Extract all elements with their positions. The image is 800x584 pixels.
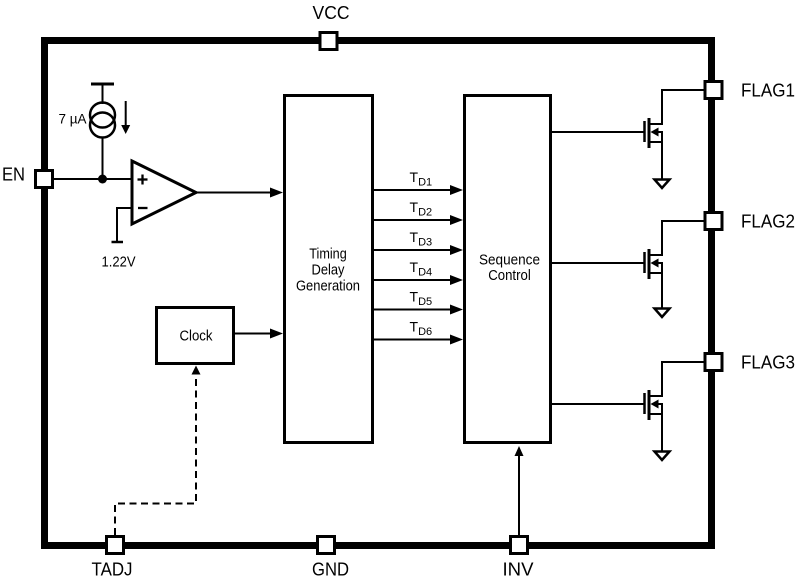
- timing delay generation block: [285, 96, 373, 443]
- wire TD6: [374, 335, 463, 345]
- ground Q1: [655, 180, 670, 189]
- dashed wire TADJ to clock: [115, 366, 201, 536]
- pin GND: [318, 537, 335, 554]
- wire comparator output to timing block: [196, 188, 283, 198]
- pin FLAG2: [705, 213, 722, 230]
- ground Q3: [655, 452, 670, 461]
- svg-text:VCC: VCC: [313, 2, 350, 23]
- transistor Q3: [552, 362, 704, 452]
- pin VCC: [320, 33, 337, 50]
- comparator U1: [132, 161, 196, 224]
- wire clock output to timing block: [233, 329, 283, 339]
- transistor Q1: [552, 90, 704, 180]
- reference 1.22V symbol: [112, 208, 133, 242]
- wire TD2: [374, 215, 463, 225]
- svg-text:Delay: Delay: [312, 263, 346, 279]
- svg-text:GND: GND: [312, 559, 349, 580]
- pin FLAG1: [705, 82, 722, 99]
- wire TD5: [374, 305, 463, 315]
- pin INV: [511, 537, 528, 554]
- chip outline: [45, 41, 712, 546]
- wire TD1: [374, 185, 463, 195]
- clock block: [157, 308, 234, 364]
- sequence control block: [465, 96, 551, 443]
- pin EN: [36, 171, 53, 188]
- svg-text:INV: INV: [503, 559, 535, 580]
- svg-text:Sequence: Sequence: [479, 253, 540, 269]
- svg-text:FLAG2: FLAG2: [741, 211, 795, 232]
- svg-text:Generation: Generation: [296, 279, 360, 295]
- wire INV to sequence control: [515, 446, 524, 536]
- pin FLAG3: [705, 354, 722, 371]
- svg-text:Clock: Clock: [180, 329, 214, 345]
- wire EN to comparator: [54, 178, 132, 180]
- svg-text:FLAG1: FLAG1: [741, 80, 795, 101]
- svg-text:Control: Control: [488, 268, 531, 284]
- transistor Q2: [552, 221, 704, 311]
- svg-text:FLAG3: FLAG3: [741, 352, 795, 373]
- svg-text:1.22V: 1.22V: [102, 255, 136, 271]
- wire TD4: [374, 275, 463, 285]
- junction node EN/current-source: [98, 175, 107, 184]
- svg-text:7 µA: 7 µA: [59, 111, 88, 127]
- current source I1: [90, 84, 115, 179]
- svg-text:Timing: Timing: [309, 247, 347, 263]
- svg-text:EN: EN: [2, 164, 25, 185]
- wire TD3: [374, 245, 463, 255]
- ground Q2: [655, 309, 670, 318]
- svg-text:TADJ: TADJ: [92, 559, 133, 580]
- pin TADJ: [107, 537, 124, 554]
- current direction arrow: [121, 101, 130, 134]
